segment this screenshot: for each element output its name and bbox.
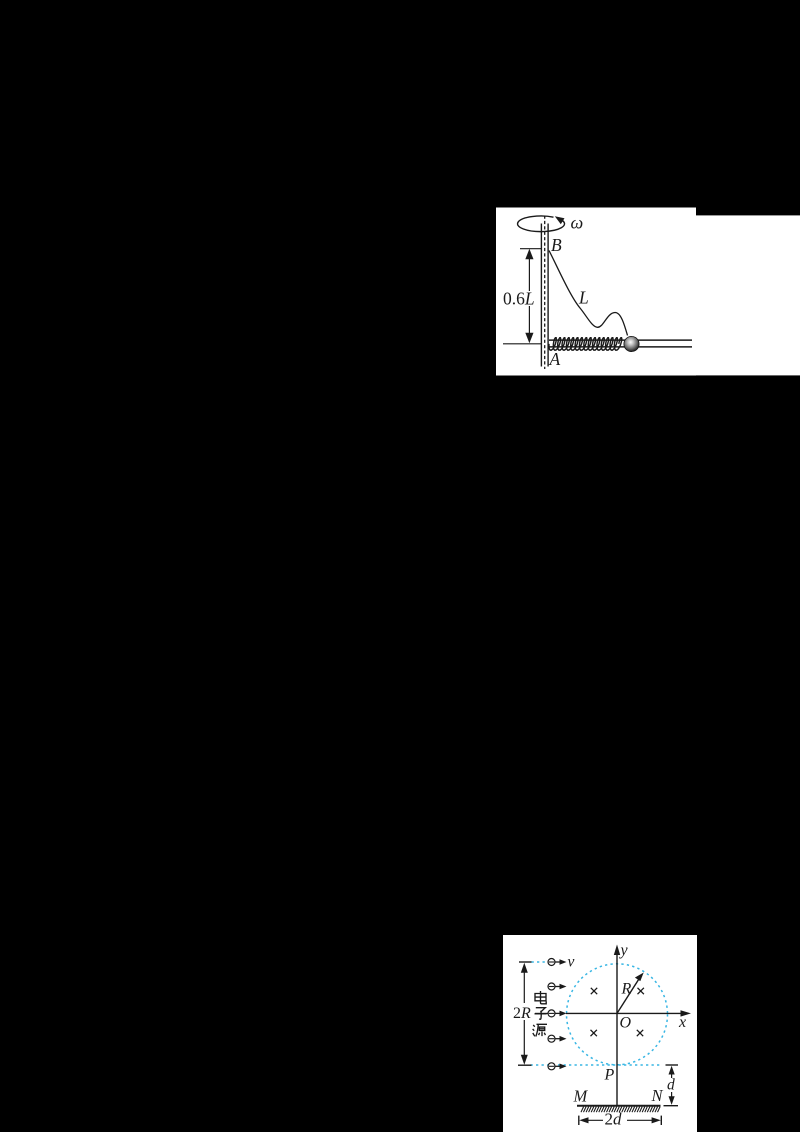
svg-text:P: P [604,1067,615,1084]
entry dashed line (cyan) at top [532,961,548,963]
rotation arrowhead [555,216,565,224]
2d right tick [660,1116,662,1125]
rod (right line) [547,224,549,367]
electron arrow row 4 [548,1035,567,1042]
char zi [535,1008,547,1020]
svg-text:ω: ω [571,213,584,233]
rod (left line) [540,224,542,367]
2R bottom tick [518,1064,532,1066]
svg-text:B: B [551,235,562,255]
svg-text:2d: 2d [605,1110,623,1129]
svg-text:M: M [573,1087,589,1106]
rail top line [549,339,692,341]
svg-text:A: A [549,349,561,369]
0.6L dimension arrow upper [528,254,530,291]
string from B to ball [549,251,628,336]
char yuan [533,1024,547,1036]
electron arrow row 2 [548,983,567,990]
rotation ellipse [518,216,565,232]
field circle (dashed cyan) [567,964,668,1065]
y axis [616,952,618,1106]
plate hatching [581,1107,660,1113]
svg-text:0.6L: 0.6L [503,289,535,309]
top tick at B level [520,248,541,250]
ball [624,336,639,351]
field cross marks [591,988,644,1036]
d dimension arrows [671,1070,673,1078]
x axis [566,1012,684,1014]
electron arrow row 3 [548,1010,567,1017]
electron arrow row 1 [548,959,567,966]
bottom tick at A level [503,343,541,345]
rod axis dashed line [544,216,546,370]
electron arrow row 5 [548,1063,567,1070]
electron arrows (5 rows) [548,959,567,1070]
exit dashed line (cyan) at bottom tangent [531,1064,662,1066]
plate MN [577,1105,661,1107]
2d dimension line with arrows [583,1119,603,1121]
char dian [535,991,546,1004]
figure 1: rotating rod with spring and ball [496,207,800,376]
spring coil [549,338,622,350]
0.6L dimension arrow lower [528,306,530,338]
rail bottom line [549,346,692,348]
svg-text:L: L [578,288,589,308]
svg-text:R: R [621,981,632,998]
figure 2: electrons entering magnetic field region [503,935,697,1132]
2R top tick [519,961,532,963]
radius arrow R [617,977,641,1014]
figure panel background [496,208,696,376]
2d left tick [578,1116,580,1125]
leader dash from 2R to source [535,1012,548,1014]
svg-text:N: N [651,1086,664,1105]
d top tick [666,1064,679,1066]
2R dimension arrows [523,968,525,1003]
svg-text:y: y [619,942,629,959]
svg-text:v: v [568,954,575,971]
figure panel background [503,935,697,1132]
svg-text:x: x [678,1014,686,1031]
svg-text:d: d [667,1077,675,1094]
svg-text:O: O [620,1015,632,1032]
d bottom tick [664,1105,679,1107]
electron source text (hand-drawn CJK) [533,991,547,1037]
svg-text:2R: 2R [513,1005,531,1022]
